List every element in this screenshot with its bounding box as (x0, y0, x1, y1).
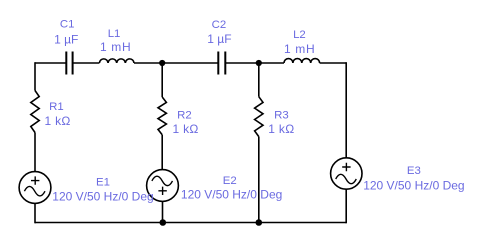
label L2 (293, 29, 306, 41)
svg-text:E1: E1 (96, 177, 110, 189)
wire E1 to bottom (34, 203, 36, 223)
label R1 (49, 101, 64, 113)
svg-text:R3: R3 (274, 109, 289, 121)
svg-text:1 kΩ: 1 kΩ (268, 122, 294, 136)
node bottom junction middle (160, 219, 167, 226)
wire left branch top (34, 62, 36, 90)
svg-text:1 kΩ: 1 kΩ (173, 122, 199, 136)
wire R3 branch top (258, 63, 260, 97)
svg-text:C1: C1 (60, 18, 75, 30)
svg-text:1 µF: 1 µF (207, 32, 231, 46)
value label 1 µF (C2) (207, 32, 231, 46)
wire E2 to bottom (162, 201, 164, 223)
label E1 (96, 177, 110, 189)
label L1 (108, 28, 121, 40)
node bottom junction R3 (255, 219, 262, 226)
wire C1 to L1 (73, 62, 100, 64)
svg-text:C2: C2 (212, 19, 227, 31)
wire middle branch top (161, 63, 163, 97)
ac source E1 (19, 172, 51, 204)
node junction A (159, 60, 165, 66)
label E2 (223, 175, 237, 187)
label R3 (274, 109, 289, 121)
wire bottom horizontal (35, 222, 346, 224)
svg-text:R2: R2 (177, 109, 192, 121)
svg-text:1 µF: 1 µF (54, 32, 78, 46)
resistor R2 (158, 97, 166, 135)
ac source E3 (331, 158, 362, 189)
value label 1 mH (L1) (100, 40, 131, 54)
svg-text:1 mH: 1 mH (284, 42, 315, 56)
value label 120 V/50 Hz/0 Deg (E1) (52, 190, 153, 204)
value label 1 kΩ (R3) (268, 122, 294, 136)
inductor L2 (284, 59, 320, 63)
capacitor C2 (218, 52, 225, 75)
wire top left horizontal (35, 62, 66, 64)
svg-text:1 kΩ: 1 kΩ (45, 114, 71, 128)
label E3 (407, 165, 421, 177)
wire R3 to bottom (258, 137, 260, 224)
svg-text:L2: L2 (293, 29, 306, 41)
wire L1 to C2 (134, 62, 218, 64)
svg-text:E3: E3 (407, 165, 421, 177)
wire R2 to E2 (161, 135, 163, 170)
resistor R1 (31, 91, 39, 133)
svg-text:L1: L1 (108, 28, 121, 40)
value label 1 kΩ (R1) (45, 114, 71, 128)
wire right branch top (345, 62, 347, 158)
svg-text:1 mH: 1 mH (100, 40, 131, 54)
value label 1 mH (L2) (284, 42, 315, 56)
node junction B (256, 60, 262, 66)
value label 1 µF (C1) (54, 32, 78, 46)
label C1 (60, 18, 75, 30)
wire E3 to bottom (345, 189, 347, 223)
value label 1 kΩ (R2) (173, 122, 199, 136)
svg-text:120 V/50 Hz/0 Deg: 120 V/50 Hz/0 Deg (52, 190, 153, 204)
value label 120 V/50 Hz/0 Deg (E2) (181, 187, 282, 201)
svg-text:120 V/50 Hz/0 Deg: 120 V/50 Hz/0 Deg (363, 178, 464, 192)
capacitor C1 (66, 52, 72, 75)
svg-text:120 V/50 Hz/0 Deg: 120 V/50 Hz/0 Deg (181, 187, 282, 201)
value label 120 V/50 Hz/0 Deg (E3) (363, 178, 464, 192)
wire L2 to right corner (320, 62, 347, 64)
ac source E2 (147, 170, 179, 202)
label C2 (212, 19, 227, 31)
wire R1 to E1 (34, 133, 36, 172)
svg-text:R1: R1 (49, 101, 64, 113)
label R2 (177, 109, 192, 121)
resistor R3 (255, 97, 263, 137)
inductor L1 (99, 59, 134, 63)
svg-text:E2: E2 (223, 175, 237, 187)
wire C2 to L2 (225, 62, 284, 64)
